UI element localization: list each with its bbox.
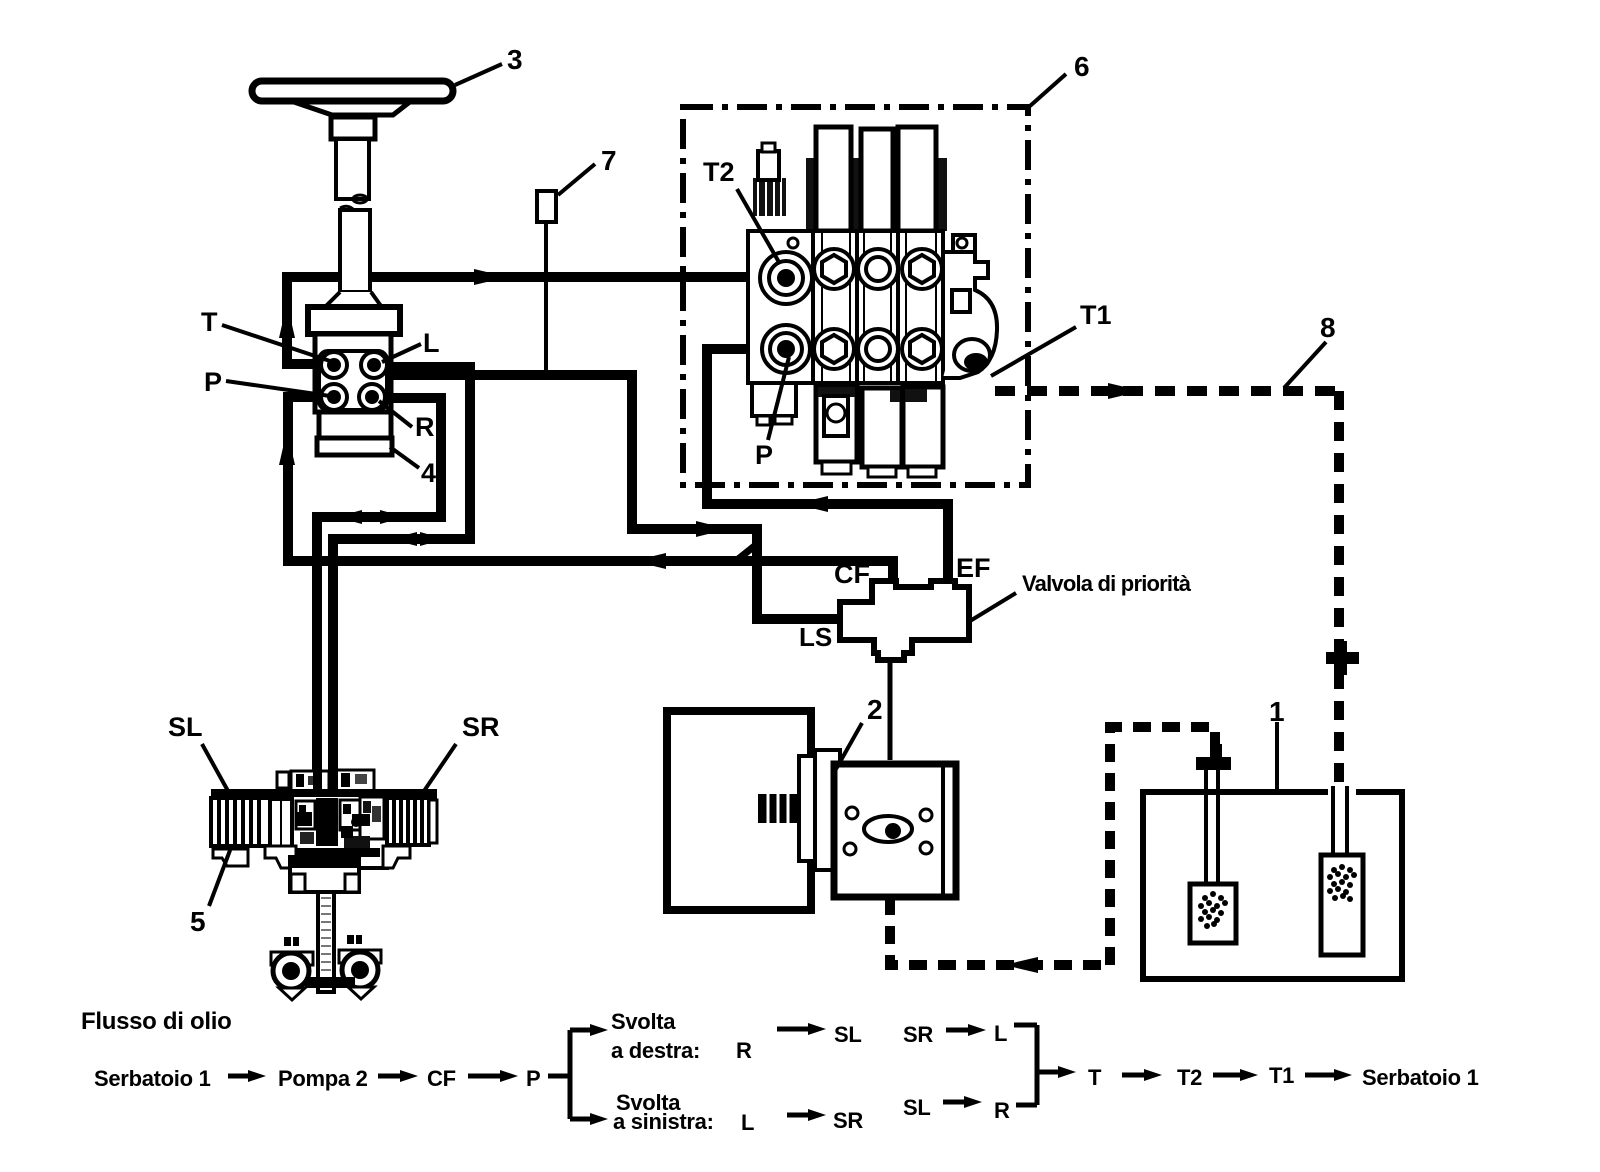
svg-text:LS: LS: [799, 622, 832, 652]
svg-text:Pompa 2: Pompa 2: [278, 1066, 368, 1091]
svg-text:T2: T2: [1177, 1065, 1202, 1090]
svg-text:SL: SL: [834, 1022, 862, 1047]
svg-text:R: R: [994, 1098, 1010, 1123]
svg-text:P: P: [526, 1066, 540, 1091]
svg-text:T2: T2: [703, 157, 735, 187]
svg-text:1: 1: [1269, 696, 1285, 727]
svg-text:T1: T1: [1269, 1063, 1294, 1088]
svg-text:EF: EF: [956, 553, 991, 583]
svg-text:R: R: [415, 412, 435, 442]
svg-text:L: L: [423, 328, 440, 358]
svg-text:2: 2: [867, 694, 883, 725]
svg-text:Valvola di priorità: Valvola di priorità: [1022, 571, 1192, 596]
svg-text:Serbatoio 1: Serbatoio 1: [1362, 1065, 1479, 1090]
svg-text:SL: SL: [903, 1095, 931, 1120]
svg-text:T1: T1: [1080, 300, 1112, 330]
svg-text:a sinistra:: a sinistra:: [613, 1109, 714, 1134]
svg-text:P: P: [755, 440, 773, 470]
svg-text:SR: SR: [462, 712, 500, 742]
svg-text:a destra:: a destra:: [611, 1038, 700, 1063]
svg-text:L: L: [994, 1021, 1007, 1046]
svg-text:CF: CF: [834, 559, 870, 589]
svg-text:P: P: [204, 367, 222, 397]
svg-text:T: T: [201, 307, 218, 337]
svg-text:SR: SR: [903, 1022, 933, 1047]
svg-text:3: 3: [507, 44, 523, 75]
svg-text:T: T: [1088, 1065, 1102, 1090]
svg-text:SR: SR: [833, 1108, 863, 1133]
svg-text:Svolta: Svolta: [611, 1009, 676, 1034]
svg-text:5: 5: [190, 906, 206, 937]
svg-text:CF: CF: [427, 1066, 456, 1091]
svg-text:Flusso di olio: Flusso di olio: [81, 1008, 231, 1035]
svg-text:6: 6: [1074, 51, 1090, 82]
svg-text:SL: SL: [168, 712, 203, 742]
svg-text:Serbatoio 1: Serbatoio 1: [94, 1066, 211, 1091]
svg-text:R: R: [736, 1038, 752, 1063]
svg-text:4: 4: [421, 458, 436, 488]
svg-text:8: 8: [1320, 312, 1336, 343]
svg-text:7: 7: [601, 145, 617, 176]
svg-text:L: L: [741, 1110, 754, 1135]
